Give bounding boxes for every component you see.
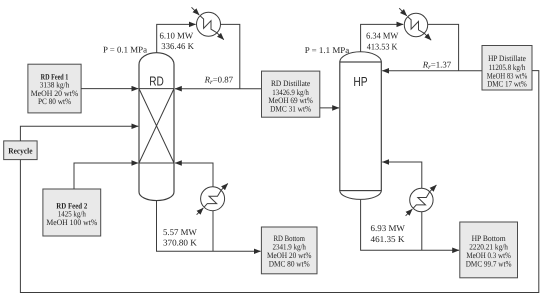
box Recycle xyxy=(4,141,37,160)
wire RD bottoms xyxy=(157,201,261,252)
svg-text:DMC 80 wt%: DMC 80 wt% xyxy=(269,259,310,268)
svg-text:HP: HP xyxy=(353,74,367,89)
svg-text:PC 80 wt%: PC 80 wt% xyxy=(38,97,71,106)
svg-text:P = 1.1 MPa: P = 1.1 MPa xyxy=(305,45,349,55)
wire RD boilup loop xyxy=(175,163,213,251)
wire HP bottoms xyxy=(361,200,459,251)
wire RD condenser outlet xyxy=(221,24,240,88)
wire HP reflux and distillate header xyxy=(382,70,482,72)
box RD Bottom xyxy=(261,227,317,274)
wire HP overhead vapor to condenser xyxy=(361,24,404,51)
svg-text:HP Distillate: HP Distillate xyxy=(488,54,526,63)
svg-text:413.53 K: 413.53 K xyxy=(367,42,398,52)
svg-text:2220.21 kg/h: 2220.21 kg/h xyxy=(469,242,508,251)
svg-text:DMC 31 wt%: DMC 31 wt% xyxy=(270,104,311,113)
svg-text:6.93 MW: 6.93 MW xyxy=(371,223,406,233)
wire recycle to RD column xyxy=(20,126,138,141)
svg-text:Rr=0.87: Rr=0.87 xyxy=(204,75,234,87)
wire RD distillate to HP column xyxy=(320,107,339,109)
wire HP boilup loop xyxy=(382,162,422,250)
svg-text:Recycle: Recycle xyxy=(8,147,33,156)
svg-text:461.35 K: 461.35 K xyxy=(371,234,406,244)
svg-text:RD Distillate: RD Distillate xyxy=(271,79,311,88)
svg-text:336.46 K: 336.46 K xyxy=(161,41,194,51)
box RD Feed 2 xyxy=(43,189,101,236)
svg-text:6.10 MW: 6.10 MW xyxy=(160,31,194,41)
box HP Bottom xyxy=(460,222,518,278)
svg-text:6.34 MW: 6.34 MW xyxy=(366,30,399,40)
svg-text:RD: RD xyxy=(149,73,164,88)
wire RD feed 2 to column xyxy=(74,163,138,189)
box RD Distillate xyxy=(262,71,320,117)
wire HP condenser outlet xyxy=(428,24,459,70)
column RD packing section chords xyxy=(139,89,174,163)
wire HP distillate recycle loop xyxy=(20,71,538,293)
column HP top dome xyxy=(340,52,382,62)
heat exchanger HP condenser xyxy=(399,8,431,40)
svg-text:Rr=1.37: Rr=1.37 xyxy=(422,60,452,72)
svg-text:DMC 99.7 wt%: DMC 99.7 wt% xyxy=(466,260,512,269)
svg-text:370.80 K: 370.80 K xyxy=(163,238,197,248)
box HP Distillate xyxy=(482,46,532,91)
column RD packing X xyxy=(139,89,174,163)
svg-text:MeOH 100 wt%: MeOH 100 wt% xyxy=(46,218,97,227)
column HP bottom head xyxy=(340,191,382,200)
svg-text:DMC 17 wt%: DMC 17 wt% xyxy=(487,80,527,89)
box RD Feed 1 xyxy=(28,64,81,113)
wire RD reflux and distillate header xyxy=(175,88,262,90)
svg-text:P = 0.1 MPa: P = 0.1 MPa xyxy=(103,45,147,55)
heat exchanger HP reboiler xyxy=(406,185,437,216)
wire RD feed 1 to column xyxy=(81,88,138,90)
heat exchanger RD condenser xyxy=(192,7,224,39)
heat exchanger RD reboiler xyxy=(197,184,228,215)
wire RD overhead vapor to condenser xyxy=(157,24,196,52)
column RD body xyxy=(139,53,174,201)
column HP body xyxy=(340,62,382,191)
svg-text:5.57 MW: 5.57 MW xyxy=(163,227,197,237)
